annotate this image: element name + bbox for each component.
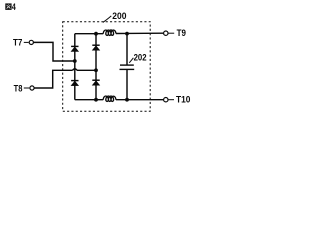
svg-text:4: 4 (12, 2, 16, 12)
bottom rail wire (75, 99, 103, 101)
bridge left branch wire (74, 34, 76, 100)
svg-text:202: 202 (134, 52, 147, 62)
svg-text:T7: T7 (13, 37, 22, 48)
junction node: right branch to top rail (94, 32, 98, 36)
inductor L1 (top) (103, 30, 116, 35)
svg-text:T8: T8 (14, 83, 23, 94)
junction node: T8 wire to right branch (94, 68, 98, 72)
wire from T8 to bridge right mid node, with hop over left branch (34, 70, 72, 88)
top rail wire (75, 33, 103, 35)
leader line for 200 (103, 16, 112, 23)
junction node: capacitor to bottom rail (125, 98, 129, 102)
inductor L2 (bottom) (103, 96, 116, 101)
diode D3 (lower left) (71, 81, 78, 86)
junction node: capacitor to top rail (125, 32, 129, 36)
svg-text:200: 200 (112, 11, 126, 21)
capacitor branch lower wire (126, 69, 128, 99)
svg-text:T10: T10 (176, 95, 190, 106)
junction node: T7 wire to left branch (73, 59, 77, 63)
figure label 図4 (5, 3, 11, 9)
diode D2 (upper right) (92, 45, 99, 50)
junction node: right branch to bottom rail (94, 98, 98, 102)
leader line for 202 (129, 58, 133, 63)
diode D1 (upper left) (71, 46, 78, 51)
capacitor 202 branch upper wire (126, 34, 128, 65)
capacitor C plates (120, 64, 134, 66)
svg-text:T9: T9 (177, 28, 186, 39)
diode D4 (lower right) (92, 80, 99, 85)
dashed enclosure box 200 (63, 22, 151, 112)
wire from T7 to bridge left mid node (34, 42, 74, 61)
bridge right branch wire (95, 34, 97, 100)
